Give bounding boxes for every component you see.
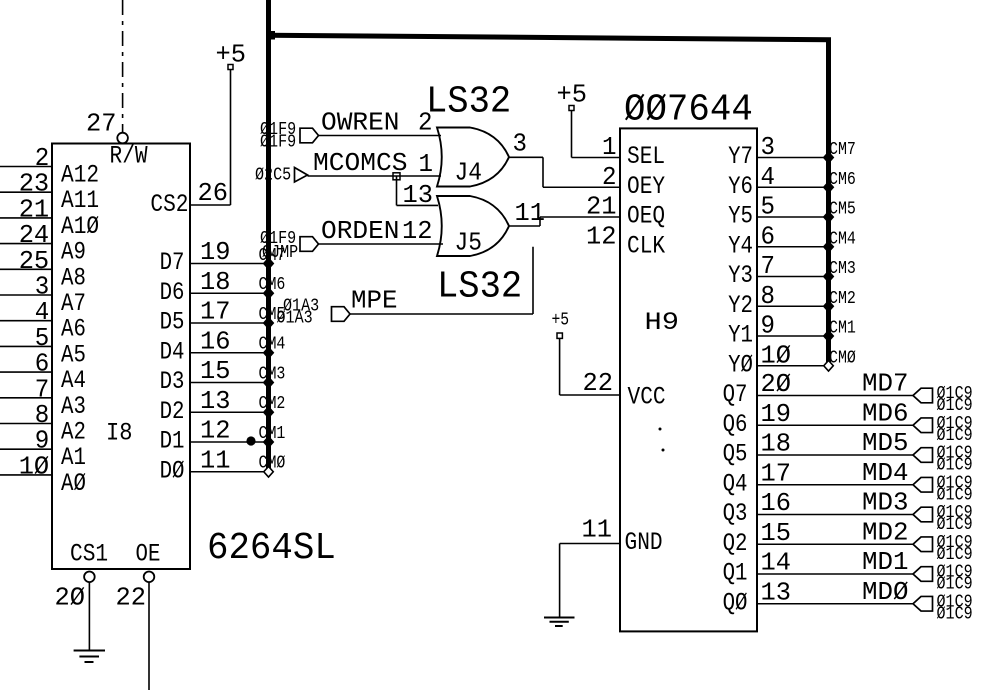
svg-text:CM6: CM6 <box>829 170 856 190</box>
svg-text:Ø1F9: Ø1F9 <box>260 229 296 249</box>
svg-text:+5: +5 <box>557 80 588 110</box>
svg-text:+5: +5 <box>216 40 247 70</box>
svg-text:1Ø: 1Ø <box>761 340 792 370</box>
svg-text:Y4: Y4 <box>728 231 753 260</box>
svg-text:AØ: AØ <box>61 469 86 498</box>
svg-text:H9: H9 <box>645 308 680 337</box>
svg-text:CMØ: CMØ <box>829 348 856 368</box>
svg-text:LS32: LS32 <box>426 81 511 124</box>
svg-text:MD6: MD6 <box>862 398 909 428</box>
svg-text:12: 12 <box>402 216 433 246</box>
svg-text:CM7: CM7 <box>829 140 856 160</box>
svg-text:Q2: Q2 <box>723 529 748 558</box>
svg-text:Y5: Y5 <box>728 202 753 231</box>
svg-text:J5: J5 <box>455 228 483 258</box>
svg-text:VCC: VCC <box>628 383 666 412</box>
svg-text:Q1: Q1 <box>723 559 748 588</box>
svg-text:D4: D4 <box>160 337 185 366</box>
svg-text:CM4: CM4 <box>829 229 856 249</box>
svg-text:1Ø: 1Ø <box>19 451 50 481</box>
svg-text:27: 27 <box>86 109 117 139</box>
svg-text:Q4: Q4 <box>723 469 748 498</box>
svg-text:CM3: CM3 <box>829 259 856 279</box>
svg-text:2: 2 <box>602 162 617 192</box>
svg-text:17: 17 <box>200 297 231 327</box>
svg-text:D5: D5 <box>160 308 185 337</box>
svg-text:A3: A3 <box>61 392 86 421</box>
svg-text:8: 8 <box>761 281 776 311</box>
svg-text:A11: A11 <box>61 186 99 215</box>
svg-text:CM4: CM4 <box>259 335 286 355</box>
svg-text:MD4: MD4 <box>862 458 909 488</box>
svg-text:11: 11 <box>515 198 546 228</box>
svg-text:CM2: CM2 <box>829 289 856 309</box>
svg-text:Y1: Y1 <box>728 321 753 350</box>
svg-text:12: 12 <box>200 416 231 446</box>
svg-text:OWREN: OWREN <box>321 108 400 138</box>
svg-text:6264SL: 6264SL <box>207 527 336 570</box>
svg-text:MD3: MD3 <box>862 488 909 518</box>
svg-text:16: 16 <box>200 326 231 356</box>
svg-text:6: 6 <box>761 221 776 251</box>
svg-text:15: 15 <box>761 518 792 548</box>
svg-text:21: 21 <box>586 192 617 222</box>
svg-text:MD5: MD5 <box>862 428 909 458</box>
svg-text:CM6: CM6 <box>259 275 286 295</box>
svg-text:+5: +5 <box>552 311 570 331</box>
svg-text:A7: A7 <box>61 289 86 318</box>
svg-text:J4: J4 <box>455 158 483 188</box>
svg-text:18: 18 <box>200 267 231 297</box>
svg-text:CMØ: CMØ <box>259 454 286 474</box>
svg-text:11: 11 <box>582 515 613 545</box>
svg-text:MD7: MD7 <box>862 369 909 399</box>
svg-text:A8: A8 <box>61 263 86 292</box>
svg-text:CS2: CS2 <box>150 190 188 219</box>
svg-text:A1Ø: A1Ø <box>61 212 99 241</box>
svg-text:CLK: CLK <box>627 231 665 260</box>
svg-text:16: 16 <box>761 488 792 518</box>
svg-text:12: 12 <box>586 221 617 251</box>
svg-text:19: 19 <box>761 399 792 429</box>
svg-text:22: 22 <box>116 583 147 613</box>
svg-text:A12: A12 <box>61 161 99 190</box>
svg-text:Ø1C9: Ø1C9 <box>937 604 973 624</box>
svg-text:A2: A2 <box>61 418 86 447</box>
svg-text:CM1: CM1 <box>259 424 286 444</box>
svg-text:CM2: CM2 <box>259 394 286 414</box>
svg-text:Ø2C5: Ø2C5 <box>255 166 291 186</box>
svg-text:Ø1A3: Ø1A3 <box>277 309 313 329</box>
svg-text:15: 15 <box>200 356 231 386</box>
svg-text:D7: D7 <box>160 248 185 277</box>
svg-text:D1: D1 <box>160 427 185 456</box>
svg-text:26: 26 <box>198 178 229 208</box>
svg-text:R/W: R/W <box>110 142 148 171</box>
svg-text:CM5: CM5 <box>829 200 856 220</box>
svg-text:13: 13 <box>200 386 231 416</box>
svg-text:A9: A9 <box>61 238 86 267</box>
svg-text:SEL: SEL <box>627 142 665 171</box>
svg-text:9: 9 <box>761 311 776 341</box>
svg-text:1: 1 <box>419 149 434 179</box>
svg-text:A6: A6 <box>61 315 86 344</box>
svg-text:Q6: Q6 <box>723 410 748 439</box>
svg-text:CM3: CM3 <box>259 365 286 385</box>
svg-text:MPE: MPE <box>351 286 398 316</box>
svg-text:YØ: YØ <box>728 350 753 379</box>
svg-text:D3: D3 <box>160 367 185 396</box>
svg-text:CS1: CS1 <box>70 540 108 569</box>
svg-text:Y2: Y2 <box>728 291 753 320</box>
svg-text:Y6: Y6 <box>728 172 753 201</box>
svg-text:22: 22 <box>583 368 614 398</box>
svg-text:GND: GND <box>625 528 663 557</box>
svg-text:A5: A5 <box>61 340 86 369</box>
svg-text:MDØ: MDØ <box>862 577 909 607</box>
svg-text:MD2: MD2 <box>862 517 909 547</box>
svg-text:CM1: CM1 <box>829 319 856 339</box>
svg-text:Q7: Q7 <box>723 380 748 409</box>
svg-text:2Ø: 2Ø <box>761 369 792 399</box>
svg-text:ØØ7644: ØØ7644 <box>624 89 753 132</box>
svg-text:2Ø: 2Ø <box>55 583 86 613</box>
svg-text:Q3: Q3 <box>723 499 748 528</box>
svg-text:Y3: Y3 <box>728 261 753 290</box>
svg-text:13: 13 <box>403 180 434 210</box>
svg-text:5: 5 <box>761 192 776 222</box>
svg-text:LS32: LS32 <box>437 266 522 309</box>
svg-text:18: 18 <box>761 429 792 459</box>
svg-text:4: 4 <box>761 162 776 192</box>
svg-text:I8: I8 <box>106 419 133 448</box>
svg-text:3: 3 <box>761 132 776 162</box>
svg-text:OE: OE <box>136 540 161 569</box>
svg-text:OEQ: OEQ <box>627 202 665 231</box>
svg-text:7: 7 <box>761 251 776 281</box>
svg-text:Ø1F9: Ø1F9 <box>260 133 296 153</box>
svg-text:QØ: QØ <box>723 588 748 617</box>
svg-text:Y7: Y7 <box>728 142 753 171</box>
svg-text:3: 3 <box>513 129 528 159</box>
svg-text:D2: D2 <box>160 397 185 426</box>
svg-text:A4: A4 <box>61 366 86 395</box>
svg-text:14: 14 <box>761 548 792 578</box>
svg-text:MD1: MD1 <box>862 547 909 577</box>
svg-text:A1: A1 <box>61 443 86 472</box>
svg-text:17: 17 <box>761 458 792 488</box>
svg-text:DØ: DØ <box>160 456 185 485</box>
svg-text:OEY: OEY <box>627 172 665 201</box>
svg-text:19: 19 <box>200 237 231 267</box>
svg-text:13: 13 <box>761 577 792 607</box>
svg-text:D6: D6 <box>160 278 185 307</box>
svg-text:Q5: Q5 <box>723 440 748 469</box>
svg-text:ORDEN: ORDEN <box>321 216 400 246</box>
svg-text:11: 11 <box>200 445 231 475</box>
